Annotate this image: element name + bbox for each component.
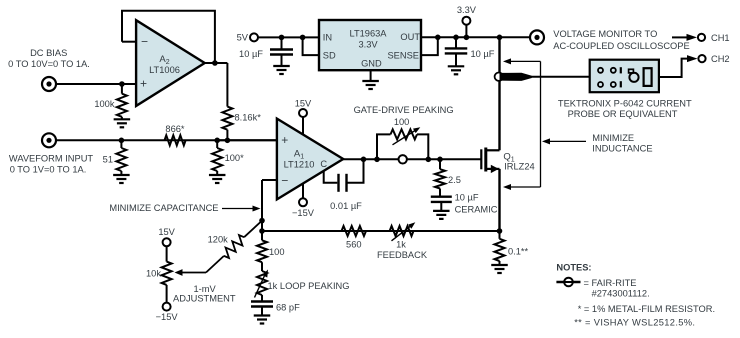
svg-text:SENSE: SENSE — [387, 50, 419, 60]
svg-text:100*: 100* — [225, 153, 245, 163]
svg-text:PROBE OR EQUIVALENT: PROBE OR EQUIVALENT — [568, 109, 678, 119]
svg-text:51: 51 — [103, 155, 113, 165]
svg-text:AC-COUPLED OSCILLOSCOPE: AC-COUPLED OSCILLOSCOPE — [553, 41, 689, 51]
svg-text:68 pF: 68 pF — [276, 302, 300, 312]
svg-text:−: − — [281, 173, 288, 187]
svg-text:TEKTRONIX P-6042 CURRENT: TEKTRONIX P-6042 CURRENT — [558, 98, 692, 108]
svg-text:3.3V: 3.3V — [457, 5, 477, 15]
svg-text:#2743001112.: #2743001112. — [592, 289, 650, 299]
svg-text:15V: 15V — [158, 227, 175, 237]
svg-text:0.1**: 0.1** — [508, 247, 529, 257]
svg-text:CERAMIC: CERAMIC — [455, 205, 498, 215]
svg-text:100: 100 — [269, 247, 285, 257]
svg-text:2.5: 2.5 — [448, 175, 461, 185]
svg-text:GND: GND — [361, 59, 382, 69]
svg-text:+: + — [140, 77, 147, 91]
svg-text:MINIMIZE CAPACITANCE: MINIMIZE CAPACITANCE — [109, 203, 218, 213]
svg-text:DC BIAS: DC BIAS — [30, 48, 67, 58]
svg-text:IN: IN — [323, 33, 332, 43]
svg-text:10 µF: 10 µF — [455, 193, 479, 203]
svg-text:100: 100 — [394, 117, 410, 127]
svg-text:LT1006: LT1006 — [149, 65, 180, 75]
svg-text:GATE-DRIVE PEAKING: GATE-DRIVE PEAKING — [354, 105, 454, 115]
svg-text:VOLTAGE MONITOR TO: VOLTAGE MONITOR TO — [553, 29, 657, 39]
svg-text:0 TO 1V=0 TO 1A.: 0 TO 1V=0 TO 1A. — [10, 165, 87, 175]
svg-text:120k: 120k — [208, 235, 229, 245]
svg-text:866*: 866* — [165, 124, 185, 134]
svg-text:NOTES:: NOTES: — [556, 262, 591, 272]
svg-text:INDUCTANCE: INDUCTANCE — [592, 144, 652, 154]
svg-text:= FAIR-RITE: = FAIR-RITE — [584, 278, 637, 288]
svg-text:IRLZ24: IRLZ24 — [504, 162, 535, 172]
svg-text:10 µF: 10 µF — [239, 49, 263, 59]
svg-text:100k: 100k — [94, 99, 115, 109]
svg-text:CH2: CH2 — [711, 54, 730, 64]
svg-text:−15V: −15V — [156, 312, 179, 322]
svg-text:MINIMIZE: MINIMIZE — [592, 133, 634, 143]
svg-text:8.16k*: 8.16k* — [235, 113, 262, 123]
svg-text:LT1210: LT1210 — [284, 160, 315, 170]
svg-text:1k LOOP PEAKING: 1k LOOP PEAKING — [268, 281, 350, 291]
svg-text:0.01 µF: 0.01 µF — [330, 201, 362, 211]
svg-text:10k: 10k — [146, 269, 161, 279]
svg-text:560: 560 — [346, 239, 362, 249]
svg-text:LT1963A: LT1963A — [349, 28, 387, 38]
svg-text:0 TO 10V=0 TO 1A.: 0 TO 10V=0 TO 1A. — [8, 59, 90, 69]
svg-text:CH1: CH1 — [711, 33, 730, 43]
svg-text:FEEDBACK: FEEDBACK — [377, 250, 428, 260]
svg-text:−15V: −15V — [292, 208, 315, 218]
svg-text:5V: 5V — [237, 33, 249, 43]
svg-text:3.3V: 3.3V — [358, 40, 378, 50]
svg-text:SD: SD — [323, 50, 336, 60]
svg-text:ADJUSTMENT: ADJUSTMENT — [173, 294, 236, 304]
svg-text:+: + — [281, 133, 288, 147]
svg-text:−: − — [141, 35, 148, 49]
svg-text:OUT: OUT — [400, 32, 420, 42]
svg-text:WAVEFORM INPUT: WAVEFORM INPUT — [9, 153, 94, 163]
svg-text:1k: 1k — [396, 239, 406, 249]
svg-text:10 µF: 10 µF — [471, 49, 495, 59]
svg-text:** = VISHAY WSL2512.5%.: ** = VISHAY WSL2512.5%. — [574, 318, 695, 328]
svg-text:15V: 15V — [295, 98, 312, 108]
svg-text:* = 1% METAL-FILM RESISTOR.: * = 1% METAL-FILM RESISTOR. — [578, 304, 715, 314]
svg-text:C: C — [320, 159, 327, 169]
